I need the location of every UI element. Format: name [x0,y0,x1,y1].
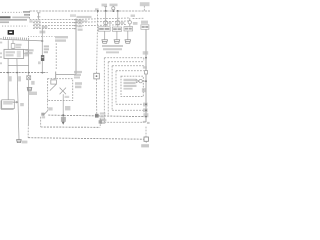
node label TO text [40,31,46,34]
legend row 3 [0,21,9,23]
splice label at x41 [42,116,45,118]
dashed bus 3 bottom [28,138,143,140]
pressure switch contacts [41,113,44,116]
ground G302 label [22,141,28,144]
PCM nested dashed box 1 top [104,57,144,59]
wire bend into compressor [56,74,76,76]
dashed drop to bottom bus [27,125,29,138]
legend row light [12,17,29,19]
ground G302 symbol [17,140,22,143]
relay contact marks [17,51,21,57]
diode module dark component [41,55,44,61]
pin marks at wire ends [74,19,75,29]
pressure switch dashed drop [47,101,49,111]
label right of bus1 end [143,113,148,117]
splice label right of feed [143,51,149,54]
fuse block left edge [29,11,31,20]
node dot bus x21 [16,72,18,74]
PCM long feed wire from box4 [145,29,147,122]
wire x107 down to solenoid1 [105,11,107,27]
fuse block dashed box top edge / bus [30,10,151,12]
junction blob at x97 [95,114,99,118]
left margin pin label 2 [0,42,2,44]
fuse F2 box [11,44,15,49]
inner logic text rows [124,79,137,90]
clutch lever diagonal [50,84,57,91]
PCM nested dashed box 3 left [111,66,113,111]
component label right [44,45,49,53]
node dot S110 [97,10,99,12]
label above row A [77,16,92,18]
A/C compressor dashed box [48,79,73,101]
legend title row dark [0,16,11,18]
dashed drop below grommet [95,79,97,116]
ground G107 label [28,92,37,95]
legend row 2 [0,19,27,21]
left margin pin label [0,38,2,40]
PCM nested dashed box 4 left [115,71,117,105]
box4 label above [141,21,148,24]
black junction block [8,30,14,35]
left margin marks [0,52,2,64]
ground box right bottom [144,137,148,141]
legend dotted rule top [2,11,22,13]
fuse text above bus right [110,4,118,7]
solenoid 2 symbol box [116,21,120,25]
wire below compressor [62,101,64,122]
connector C100 vertical [75,19,77,75]
PCM nested dashed box 1 right hook [143,58,145,61]
node junction dot at strip end [41,40,43,42]
control head text [3,101,12,105]
transmission assembly label rows [102,45,123,53]
wire label right [65,106,70,110]
wire label x18 [18,76,21,81]
connector strip pin ticks [4,37,29,40]
connector label at compressor exit [65,96,70,98]
label left of feed lower [142,88,146,92]
label right of rowA end [131,15,135,17]
solenoid 1 symbol box [104,21,108,25]
ground G3 under box3 [125,40,131,43]
stub solenoid2 to ground [116,31,118,40]
wire row A drop to solenoid3 [129,18,131,21]
wire below bus x8 [7,73,9,100]
bus corner up at right [143,6,145,11]
wire row B right [76,21,130,23]
connector C100 label [70,14,76,17]
ground G1 under box1 [102,40,108,43]
A/C control head box [1,100,14,110]
node dot [145,103,147,105]
inline connector on feed [144,71,147,74]
dashed riser x97.4 [99,118,101,127]
wire row 4 [33,28,76,30]
wire below bus x18 [17,73,19,140]
ground label bottom right [141,144,149,147]
wire row labels [34,21,41,29]
relay output wire 1 [7,59,9,73]
arrowhead terminal [62,122,65,125]
fuse F1 [37,12,40,19]
PCM nested dashed box 2 top [108,61,144,63]
PCM label bottom left of nested boxes [100,119,107,124]
PCM nested dashed box 4 top [116,70,144,72]
compressor label right top [74,71,82,79]
wire row 3 [33,25,76,27]
S connector marks on feed [143,121,146,123]
wire drop x47 [41,26,43,73]
driver op-amp triangle U1 [136,79,139,82]
pressure switch lever [43,111,47,116]
PCM nested dashed box 3 bottom [112,109,144,111]
node dot on bus1 [62,114,64,116]
pin labels right of C100 [78,19,83,30]
A/C relay box [4,49,24,58]
node dot on feed [145,57,147,59]
relay inner text [6,51,15,56]
solenoid3 stub [129,24,131,27]
inline connector crossed box [27,76,31,80]
bridge wire [8,64,28,66]
main dashed bus C2 [0,72,48,74]
node dot bus x29 [28,72,30,74]
connector smudge on wire [61,117,66,122]
pressure switch label [48,107,52,110]
wire below bus x28.8 [27,73,29,125]
relay output wire 2 [16,59,18,73]
connector strip line C1 [3,39,43,41]
switch arrow [13,101,19,104]
node dot [145,109,147,111]
top right corner label [140,2,150,6]
dashed bus 1 [48,115,144,117]
dashed bus 2 [41,126,100,128]
label right of control head [20,103,24,106]
PCM nested dashed box 2 left [107,62,109,117]
fuse F2 label [16,44,22,48]
node dot bus x11 [7,72,9,74]
label under box edge [29,20,32,22]
splice S110 label above bus [95,8,99,10]
connector box row: box3 [124,27,133,32]
wire label x8 [9,76,12,81]
wire drop x8 [7,40,9,49]
connector mark at riser top [99,120,102,123]
wire triangle to feed [139,79,142,82]
wire stub into box [55,72,57,80]
PCM nested dashed box 1 left [103,58,105,123]
connector marks at nested box4 bottom right [143,103,148,107]
dashed drop x56 [55,43,57,69]
node dot [145,80,147,82]
compressor X symbol [60,88,66,95]
label above row B [77,20,88,22]
ground G2 under box2 [114,40,120,43]
compressor label right mid [75,82,82,88]
solenoid 3 coil circle [128,21,131,24]
legend text column right [23,11,30,16]
relay output wire 3 [28,40,30,72]
wire row C right [76,25,126,26]
grommet connector on dashed drop [94,73,100,79]
node dot at x107 [105,10,107,12]
connector box 4 [141,25,149,30]
fuse text above bus left [102,4,108,7]
node dot at x113 [112,10,114,12]
label right of solenoid3 coil [133,22,138,25]
connector marks at nested box3 bottom right [143,108,148,112]
inner logic dashed box [121,76,143,96]
wire fuse to relay box [12,48,14,49]
label right of dotted row [55,36,68,42]
stub above coil [112,5,114,8]
relay sub box [24,49,29,53]
wire row 2 [33,22,76,24]
label right of junction [100,112,106,120]
PCM nested dashed box 3 top [112,65,144,67]
node dot bus1 right end [145,116,147,118]
wire x113 down to solenoid2 [112,10,114,11]
clutch coil box [51,80,57,84]
dashed feed tail [145,127,147,137]
ground G107 symbol [27,88,32,91]
PCM nested dashed box 4 bottom [116,103,144,105]
connector box row: box1 [98,27,110,31]
connector box row: box2 [112,27,121,31]
fuse stub up at x107 [104,7,107,11]
dotted jumper row [28,36,55,38]
wire label right [31,81,34,85]
label above nested top right [143,66,147,68]
coil loop at x113 [112,7,115,10]
PCM nested dashed box 1 bottom [104,121,144,123]
stub solenoid1 to ground [104,31,106,40]
dashed drop wire from S110 [97,12,98,74]
dashed corner drop x40.7 [40,117,42,127]
A/C comp relay label left [25,49,33,54]
node dot bus x47 [42,72,44,74]
wire drop x13 [12,40,14,43]
stub X to box bottom [62,94,64,100]
wire row A stub to box4 [133,17,144,19]
stub solenoid3 to ground [127,31,129,40]
legend dotted rule bottom [2,25,28,27]
wire row A right [76,18,129,19]
wire row 1 [30,19,76,21]
